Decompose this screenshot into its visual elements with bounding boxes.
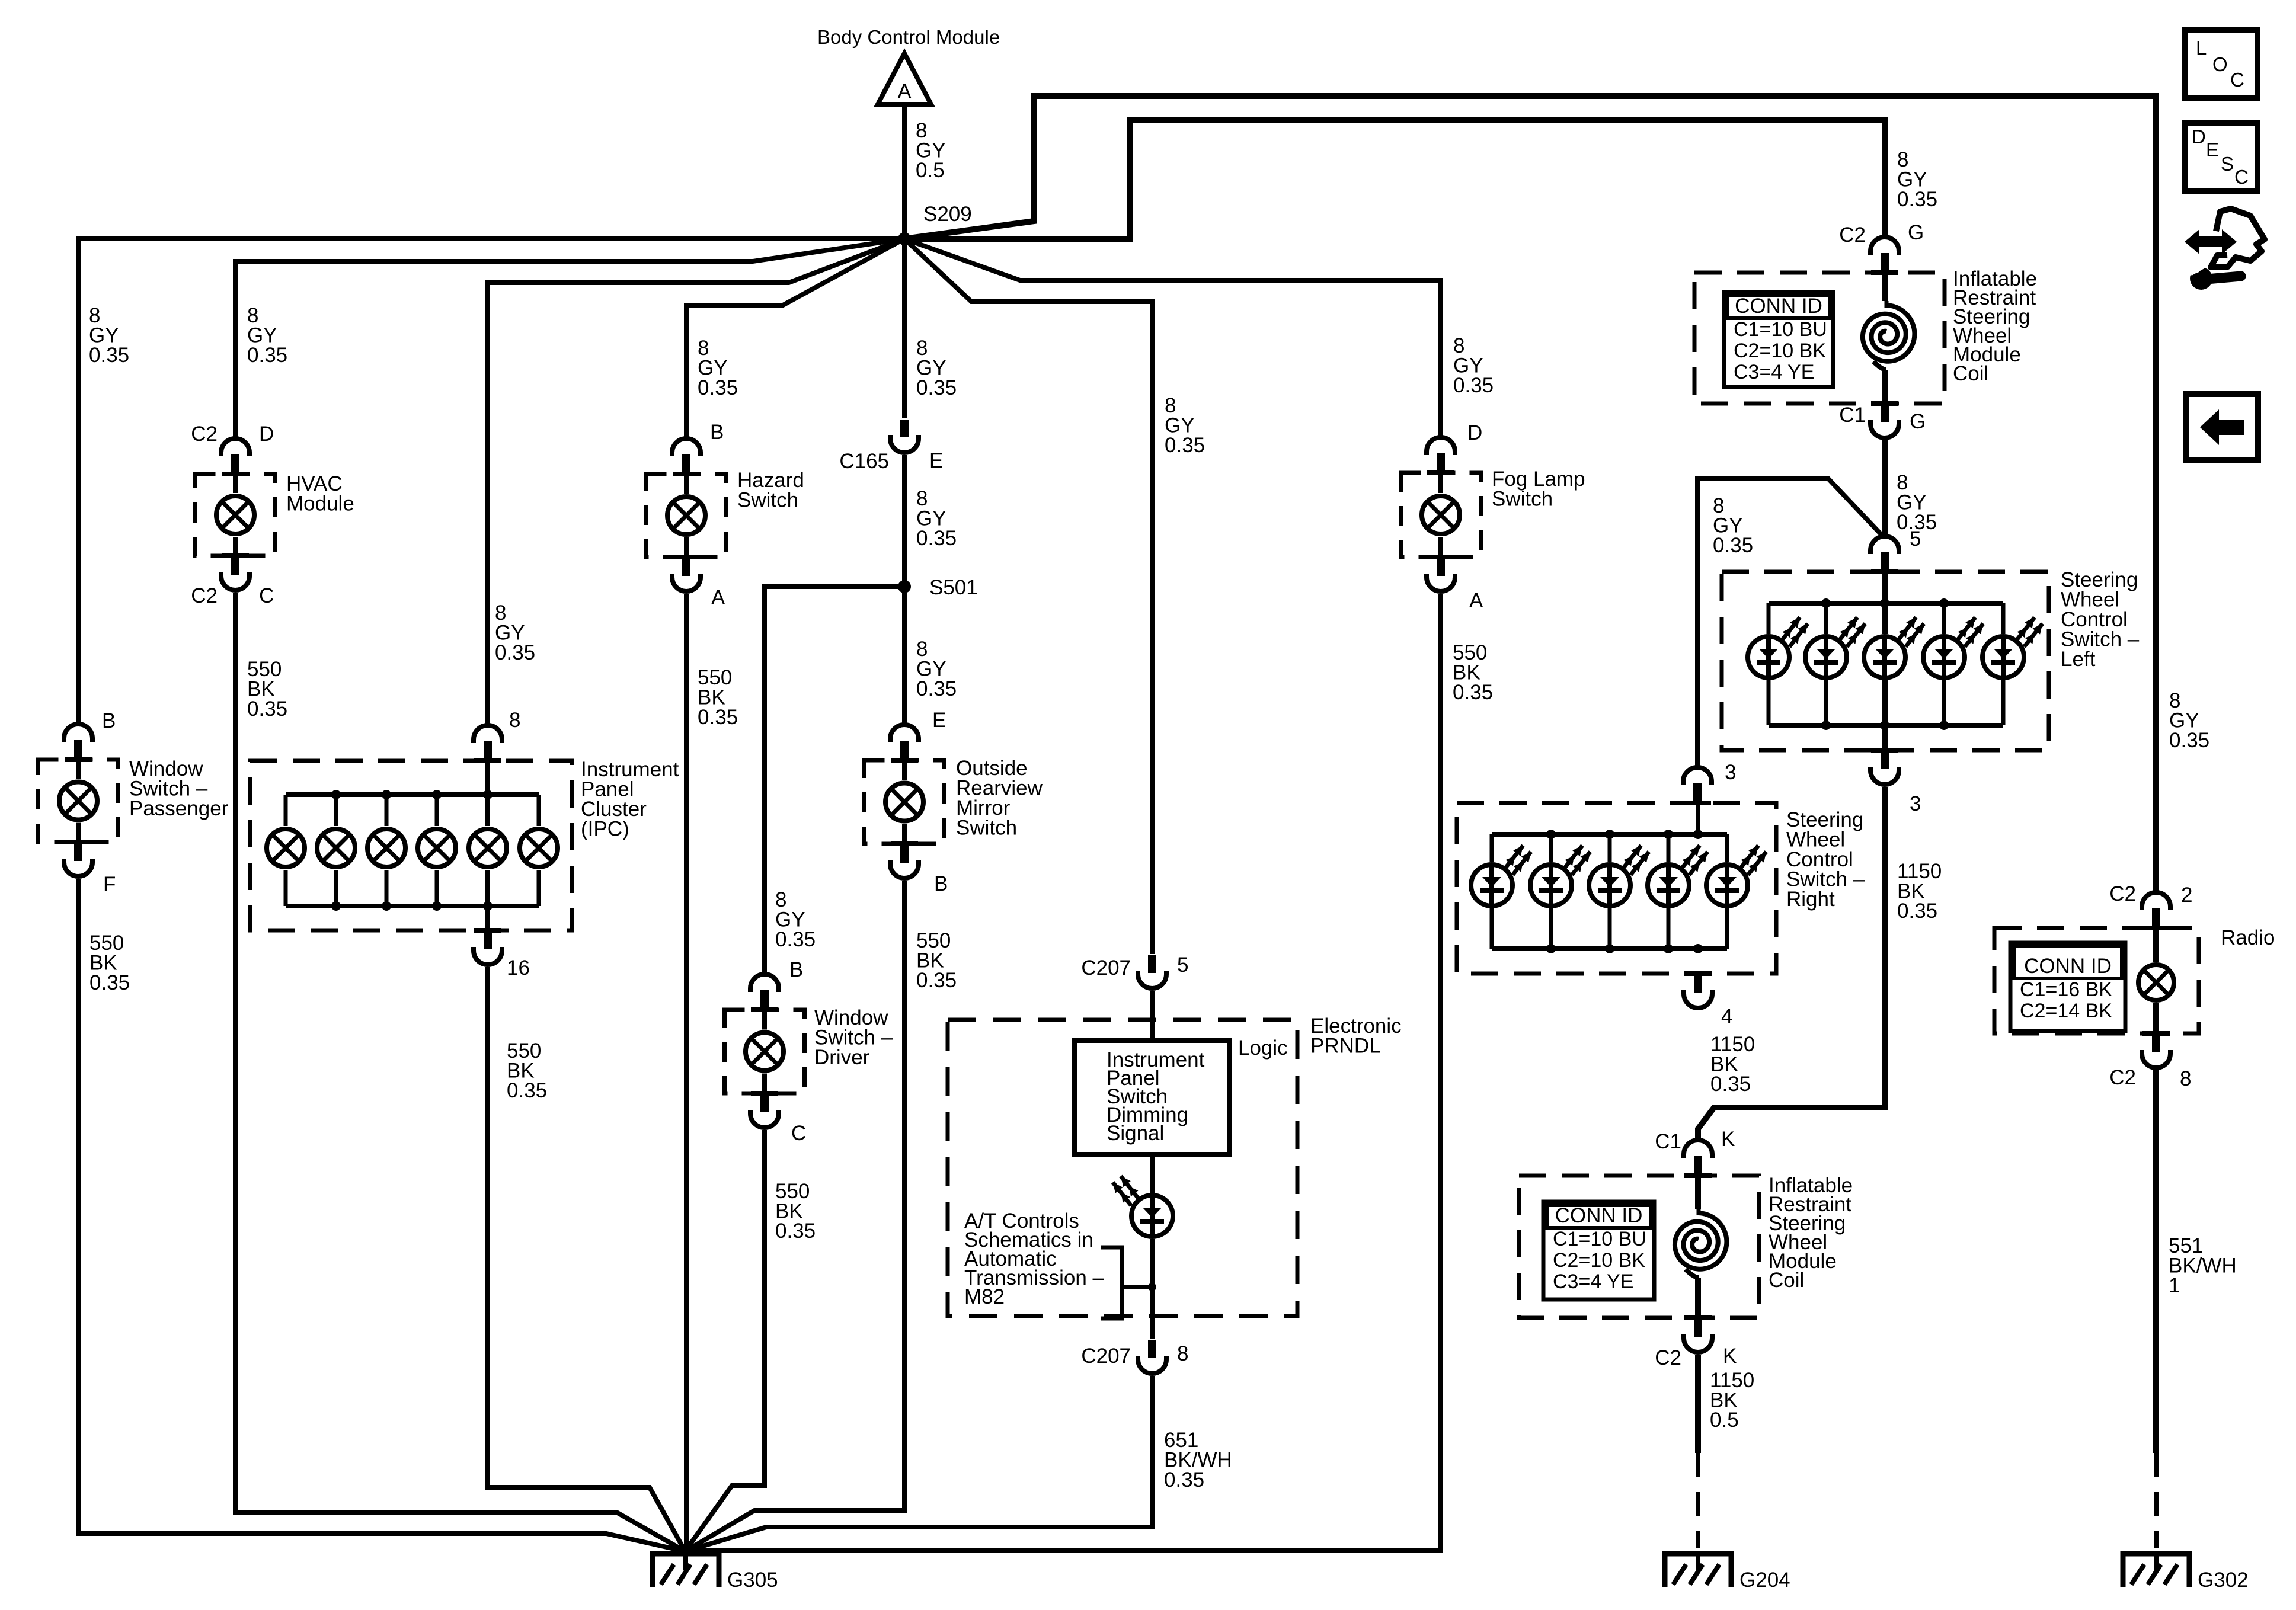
svg-text:C3=4 YE: C3=4 YE bbox=[1734, 361, 1814, 383]
svg-text:0.35: 0.35 bbox=[1453, 374, 1494, 397]
svg-text:D: D bbox=[2192, 126, 2206, 148]
svg-text:K: K bbox=[1721, 1128, 1735, 1151]
svg-text:(IPC): (IPC) bbox=[581, 818, 629, 841]
svg-text:0.35: 0.35 bbox=[247, 344, 287, 367]
svg-text:K: K bbox=[1723, 1345, 1737, 1368]
svg-text:C207: C207 bbox=[1081, 956, 1131, 980]
svg-text:0.5: 0.5 bbox=[1710, 1409, 1739, 1432]
svg-text:C: C bbox=[791, 1122, 806, 1145]
svg-text:A: A bbox=[1469, 589, 1483, 612]
svg-text:C2=14 BK: C2=14 BK bbox=[2020, 1000, 2112, 1022]
svg-text:3: 3 bbox=[1725, 761, 1736, 784]
svg-text:C1=10 BU: C1=10 BU bbox=[1553, 1228, 1646, 1250]
svg-text:0.35: 0.35 bbox=[1710, 1073, 1751, 1096]
svg-text:0.35: 0.35 bbox=[89, 971, 130, 994]
svg-text:0.35: 0.35 bbox=[2169, 729, 2209, 752]
svg-text:0.35: 0.35 bbox=[507, 1079, 547, 1102]
svg-text:L: L bbox=[2196, 37, 2207, 59]
svg-text:S501: S501 bbox=[929, 576, 978, 599]
svg-text:Radio: Radio bbox=[2221, 926, 2275, 949]
svg-text:3: 3 bbox=[1910, 792, 1921, 815]
svg-text:B: B bbox=[710, 421, 724, 444]
svg-text:0.35: 0.35 bbox=[1897, 900, 1937, 923]
svg-text:16: 16 bbox=[507, 956, 530, 980]
svg-text:C1: C1 bbox=[1839, 404, 1866, 427]
svg-text:C207: C207 bbox=[1081, 1345, 1131, 1368]
svg-text:Module: Module bbox=[286, 492, 354, 516]
svg-text:0.35: 0.35 bbox=[247, 697, 287, 721]
svg-text:Body Control Module: Body Control Module bbox=[817, 26, 1000, 48]
svg-text:0.35: 0.35 bbox=[1713, 534, 1753, 557]
svg-text:0.35: 0.35 bbox=[916, 677, 957, 700]
svg-text:0.35: 0.35 bbox=[89, 344, 129, 367]
svg-text:CONN ID: CONN ID bbox=[2024, 955, 2112, 978]
svg-text:C3=4 YE: C3=4 YE bbox=[1553, 1270, 1633, 1293]
svg-text:B: B bbox=[789, 958, 803, 981]
svg-text:0.35: 0.35 bbox=[495, 641, 535, 664]
svg-text:C1: C1 bbox=[1655, 1130, 1681, 1153]
svg-text:0.35: 0.35 bbox=[916, 969, 957, 992]
svg-text:8: 8 bbox=[1177, 1342, 1188, 1365]
svg-text:G305: G305 bbox=[727, 1569, 778, 1592]
svg-text:C: C bbox=[259, 584, 274, 607]
svg-text:E: E bbox=[2206, 139, 2219, 161]
svg-text:0.35: 0.35 bbox=[1453, 681, 1493, 704]
svg-text:C2: C2 bbox=[2109, 882, 2136, 905]
svg-text:0.35: 0.35 bbox=[775, 928, 816, 951]
svg-text:Signal: Signal bbox=[1107, 1122, 1164, 1145]
svg-text:C2=10 BK: C2=10 BK bbox=[1734, 340, 1826, 362]
svg-text:C1=16 BK: C1=16 BK bbox=[2020, 978, 2112, 1001]
svg-text:2: 2 bbox=[2181, 884, 2192, 907]
svg-text:CONN ID: CONN ID bbox=[1735, 295, 1822, 318]
svg-text:C2=10 BK: C2=10 BK bbox=[1553, 1249, 1645, 1272]
svg-text:G: G bbox=[1908, 221, 1924, 244]
svg-text:Switch: Switch bbox=[737, 489, 798, 512]
svg-text:A: A bbox=[897, 80, 912, 103]
svg-text:0.35: 0.35 bbox=[916, 376, 957, 399]
svg-text:C2: C2 bbox=[1655, 1346, 1681, 1369]
svg-text:D: D bbox=[1467, 421, 1482, 444]
svg-text:G: G bbox=[1910, 410, 1926, 433]
svg-text:0.35: 0.35 bbox=[1897, 188, 1937, 211]
svg-text:0.5: 0.5 bbox=[916, 159, 945, 182]
svg-text:0.35: 0.35 bbox=[916, 527, 957, 550]
svg-text:Right: Right bbox=[1786, 888, 1835, 911]
svg-text:S209: S209 bbox=[923, 203, 972, 226]
svg-text:B: B bbox=[102, 709, 116, 732]
svg-text:Left: Left bbox=[2061, 648, 2096, 671]
svg-text:C: C bbox=[2234, 166, 2249, 188]
svg-text:E: E bbox=[929, 449, 943, 472]
svg-text:8: 8 bbox=[2180, 1067, 2191, 1090]
svg-text:B: B bbox=[934, 872, 948, 895]
svg-text:O: O bbox=[2212, 53, 2228, 75]
svg-text:8: 8 bbox=[509, 709, 520, 732]
svg-text:Driver: Driver bbox=[814, 1046, 870, 1069]
svg-text:M82: M82 bbox=[964, 1285, 1005, 1308]
svg-text:G204: G204 bbox=[1739, 1569, 1790, 1592]
svg-text:C165: C165 bbox=[839, 450, 889, 473]
svg-text:5: 5 bbox=[1177, 953, 1188, 977]
svg-text:C1=10 BU: C1=10 BU bbox=[1734, 318, 1827, 341]
svg-text:0.35: 0.35 bbox=[1165, 434, 1205, 457]
svg-text:G302: G302 bbox=[2198, 1569, 2249, 1592]
svg-text:0.35: 0.35 bbox=[775, 1219, 816, 1243]
svg-text:4: 4 bbox=[1721, 1005, 1732, 1028]
svg-text:C2: C2 bbox=[191, 584, 218, 607]
svg-text:1: 1 bbox=[2169, 1274, 2180, 1297]
svg-text:Passenger: Passenger bbox=[129, 797, 229, 820]
svg-text:0.35: 0.35 bbox=[1164, 1468, 1204, 1491]
svg-text:C: C bbox=[2230, 69, 2244, 91]
svg-text:A: A bbox=[711, 586, 725, 609]
svg-text:D: D bbox=[259, 422, 274, 446]
svg-text:Logic: Logic bbox=[1238, 1036, 1288, 1060]
svg-text:Coil: Coil bbox=[1953, 362, 1988, 385]
svg-text:C2: C2 bbox=[2109, 1066, 2136, 1089]
svg-text:C2: C2 bbox=[1839, 223, 1866, 247]
svg-text:E: E bbox=[932, 709, 946, 732]
svg-text:C2: C2 bbox=[191, 422, 218, 446]
svg-text:Switch: Switch bbox=[1492, 488, 1553, 511]
svg-text:PRNDL: PRNDL bbox=[1310, 1035, 1381, 1058]
svg-text:CONN ID: CONN ID bbox=[1555, 1204, 1643, 1227]
svg-text:Switch: Switch bbox=[956, 817, 1017, 840]
svg-text:0.35: 0.35 bbox=[698, 706, 738, 729]
svg-text:0.35: 0.35 bbox=[698, 376, 738, 399]
svg-text:S: S bbox=[2221, 153, 2234, 175]
svg-text:F: F bbox=[103, 873, 116, 896]
svg-text:0.35: 0.35 bbox=[1897, 511, 1937, 534]
svg-text:Coil: Coil bbox=[1769, 1269, 1804, 1292]
